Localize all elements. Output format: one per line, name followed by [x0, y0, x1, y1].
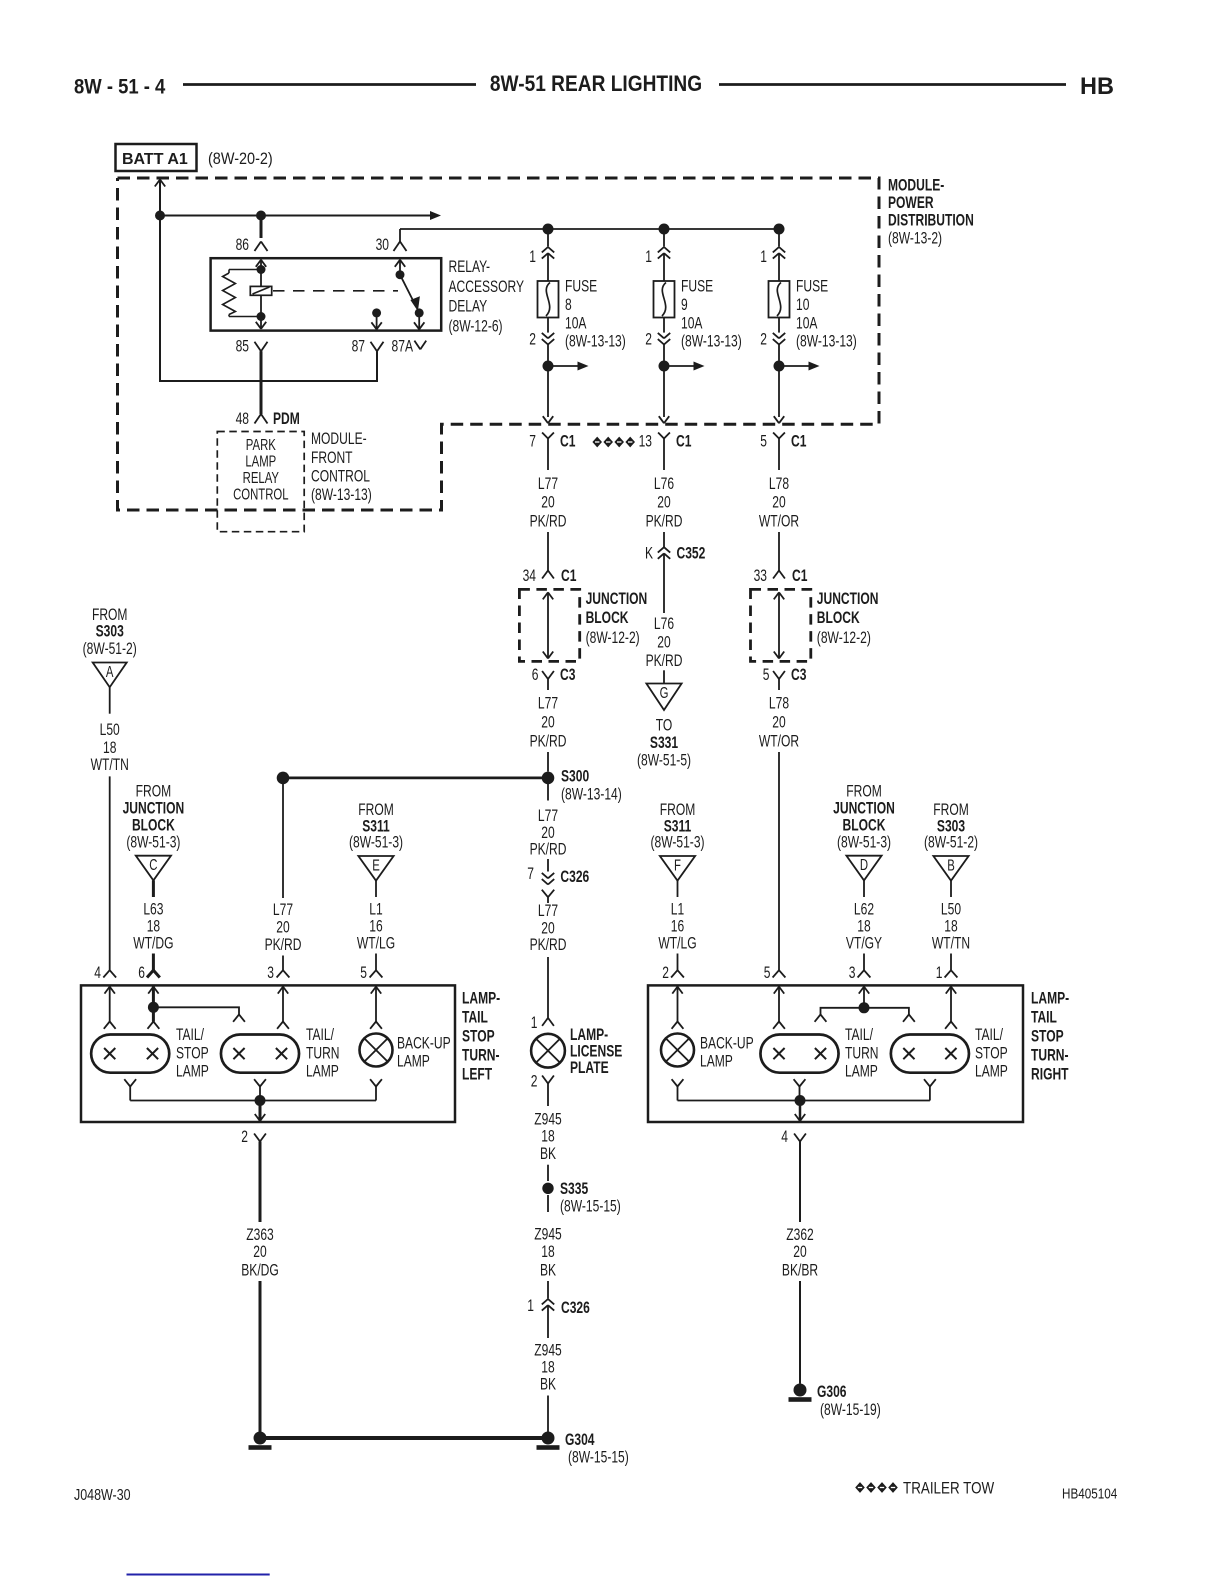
svg-text:5: 5	[763, 666, 770, 684]
header rule left	[183, 83, 476, 86]
svg-text:C352: C352	[677, 545, 706, 563]
wire jumper to tail-stop right	[864, 1008, 915, 1022]
wire to splice S335	[547, 1165, 549, 1181]
svg-text:BATT A1: BATT A1	[122, 151, 188, 168]
wire label L77 20 PK/RD below junction block	[530, 695, 567, 751]
svg-text:(8W-12-6): (8W-12-6)	[449, 318, 503, 336]
right lamp internal feed pin 2	[672, 987, 684, 1029]
label FROM JUNCTION BLOCK (8W-51-3) right	[833, 783, 895, 852]
node bus junction at fuse 8	[543, 224, 554, 235]
svg-text:5: 5	[760, 433, 767, 451]
wire fuse 9 output down	[659, 366, 669, 423]
wire label L78 20 WT/OR	[759, 475, 799, 531]
svg-text:(8W-12-2): (8W-12-2)	[586, 629, 640, 647]
svg-text:C326: C326	[561, 1299, 590, 1317]
svg-text:2: 2	[662, 964, 669, 982]
svg-text:(8W-13-14): (8W-13-14)	[561, 786, 622, 804]
svg-text:BK/BR: BK/BR	[782, 1262, 818, 1280]
svg-text:87: 87	[352, 338, 365, 356]
label RELAY-ACCESSORY DELAY (8W-12-6)	[449, 258, 525, 336]
wire into C326 lower	[547, 1281, 549, 1299]
fuse 8 connector pin 1	[529, 247, 554, 267]
footer trailer tow legend	[855, 1479, 994, 1498]
svg-text:HB: HB	[1080, 73, 1114, 100]
label LAMP-TAIL STOP TURN-LEFT	[462, 990, 500, 1084]
wire to junction block pin 33	[778, 532, 780, 571]
label MODULE-FRONT CONTROL (8W-13-13)	[311, 430, 372, 504]
svg-text:34: 34	[523, 567, 536, 585]
svg-text:(8W-51-5): (8W-51-5)	[637, 752, 691, 770]
svg-text:CONTROL: CONTROL	[311, 468, 370, 486]
svg-text:L1: L1	[671, 901, 684, 919]
svg-text:JUNCTION: JUNCTION	[817, 590, 879, 608]
svg-text:4: 4	[781, 1128, 788, 1146]
svg-text:PK/RD: PK/RD	[646, 652, 683, 670]
node ground collector left	[255, 1095, 266, 1106]
wire label L1 16 WT/LG right	[658, 901, 696, 953]
wire into fuse 10	[778, 253, 780, 281]
footer link line	[127, 1574, 270, 1576]
license lamp pin 1	[531, 1014, 554, 1032]
svg-text:LAMP-: LAMP-	[462, 990, 500, 1008]
svg-text:10A: 10A	[796, 314, 818, 332]
svg-text:L76: L76	[654, 475, 674, 493]
label LAMP-LICENSE PLATE	[570, 1026, 622, 1078]
wire label L50 18 WT/TN	[91, 721, 129, 774]
wire from fuse 10 to connector	[778, 345, 780, 367]
svg-text:RELAY-: RELAY-	[449, 258, 491, 276]
fuse 9 connector pin 2	[645, 318, 670, 350]
wire into fuse 9	[663, 253, 665, 281]
svg-text:FUSE: FUSE	[565, 278, 597, 296]
svg-text:STOP: STOP	[462, 1028, 495, 1046]
wire jumper to tail-turn lamp	[153, 1007, 245, 1022]
node A from S303	[93, 662, 127, 687]
wire from fuse 9 to connector	[663, 345, 665, 367]
svg-text:(8W-51-3): (8W-51-3)	[837, 833, 891, 851]
wire label L62 18 VT/GY	[846, 901, 882, 953]
wire from node A	[109, 687, 111, 714]
footer code HB405104	[1062, 1485, 1118, 1502]
svg-text:1: 1	[645, 248, 652, 266]
trailer tow diamonds marker	[592, 437, 635, 448]
svg-text:BLOCK: BLOCK	[843, 817, 886, 835]
svg-text:20: 20	[793, 1243, 806, 1261]
connector C352 pin K	[645, 545, 705, 563]
junction block right internal arrow	[774, 592, 784, 658]
splice S300	[542, 768, 622, 804]
wire below C352	[663, 553, 665, 613]
svg-text:(8W-15-15): (8W-15-15)	[560, 1198, 621, 1216]
svg-text:PK/RD: PK/RD	[530, 733, 567, 751]
svg-text:ACCESSORY: ACCESSORY	[449, 278, 525, 296]
svg-text:WT/TN: WT/TN	[932, 935, 970, 953]
svg-text:FRONT: FRONT	[311, 449, 353, 467]
svg-text:BACK-UP: BACK-UP	[700, 1035, 754, 1053]
wire from node B	[950, 881, 952, 897]
svg-text:LAMP: LAMP	[306, 1063, 339, 1081]
lamp-tail stop turn-left box	[81, 985, 455, 1122]
svg-text:(8W-51-3): (8W-51-3)	[126, 833, 180, 851]
label FUSE 9 10A (8W-13-13)	[681, 278, 742, 352]
header HB	[1080, 73, 1114, 100]
svg-text:Z945: Z945	[534, 1342, 562, 1360]
node E from S311	[358, 856, 393, 881]
relay coil element	[250, 286, 271, 295]
svg-text:MODULE-: MODULE-	[311, 430, 367, 448]
wire to junction block pin 34	[547, 532, 549, 571]
node bus junction at fuse 10	[774, 224, 785, 235]
wire into connector C326	[547, 859, 549, 872]
wire label Z945 18 BK middle	[534, 1226, 562, 1280]
svg-text:18: 18	[857, 918, 870, 936]
label PARK LAMP RELAY CONTROL	[233, 435, 289, 503]
svg-text:DELAY: DELAY	[449, 298, 488, 316]
svg-text:(8W-51-3): (8W-51-3)	[650, 834, 704, 852]
wire from node E	[375, 881, 377, 897]
svg-text:FUSE: FUSE	[796, 278, 828, 296]
wire label L78 20 WT/OR below junction block	[759, 695, 799, 751]
svg-text:1: 1	[531, 1014, 538, 1032]
svg-text:HB405104: HB405104	[1062, 1485, 1118, 1502]
label (8W-20-2)	[208, 150, 273, 168]
label FROM S311 (8W-51-3) right	[650, 801, 704, 852]
wire from fuse 8 to connector	[547, 345, 549, 367]
svg-text:LAMP: LAMP	[975, 1063, 1008, 1081]
wire to left lamp pin 3	[282, 956, 284, 971]
svg-text:CONTROL: CONTROL	[233, 485, 289, 503]
svg-text:10: 10	[796, 296, 809, 314]
node C from junction block	[136, 855, 171, 880]
svg-text:48: 48	[236, 410, 249, 428]
svg-text:TAIL/: TAIL/	[176, 1026, 205, 1044]
svg-text:A: A	[106, 662, 114, 680]
relay internal dashed link	[273, 290, 398, 292]
fuse 8 connector pin 2	[529, 318, 554, 350]
connector C1 pin 7	[529, 433, 575, 471]
node D from junction block	[846, 855, 881, 880]
wire L63 to left lamp pin 6	[152, 954, 155, 971]
connector C1 pin 5	[760, 433, 806, 471]
wire from S300 down	[547, 784, 549, 801]
wire to connector C352	[663, 532, 665, 547]
svg-text:85: 85	[236, 338, 249, 356]
svg-text:STOP: STOP	[975, 1045, 1008, 1063]
ground G304	[537, 1431, 629, 1467]
node take-off at fuse 8 output	[543, 361, 589, 372]
svg-text:C326: C326	[560, 868, 589, 886]
park lamp relay control dashed box	[217, 432, 304, 532]
svg-text:Z363: Z363	[246, 1226, 274, 1244]
svg-text:20: 20	[657, 634, 670, 652]
svg-text:BLOCK: BLOCK	[817, 609, 860, 627]
wire fuse 10 output down	[774, 366, 784, 423]
svg-text:JUNCTION: JUNCTION	[586, 590, 648, 608]
label BACK-UP LAMP right	[700, 1035, 754, 1071]
node take-off at fuse 9 output	[659, 361, 705, 372]
left lamp ground returns	[124, 1079, 382, 1100]
left lamp pin 6	[138, 964, 160, 982]
left lamp pin 5	[360, 964, 382, 982]
svg-text:BLOCK: BLOCK	[132, 817, 175, 835]
wire label L76 20 PK/RD	[646, 475, 683, 531]
node bus junction at fuse 9	[659, 224, 670, 235]
wire L1 to left lamp pin 5	[375, 954, 377, 971]
svg-text:8: 8	[565, 296, 572, 314]
footer drawing number J048W-30	[74, 1487, 131, 1505]
svg-text:STOP: STOP	[1031, 1028, 1064, 1046]
svg-text:2: 2	[760, 331, 767, 349]
svg-text:C1: C1	[676, 433, 691, 451]
wire bus to fuse 8	[547, 229, 549, 247]
svg-text:L62: L62	[854, 901, 874, 919]
svg-text:S331: S331	[650, 734, 678, 752]
svg-text:POWER: POWER	[888, 194, 934, 212]
svg-text:BK/DG: BK/DG	[241, 1262, 279, 1280]
left lamp internal feed pin 5	[370, 987, 382, 1029]
svg-text:L50: L50	[941, 901, 961, 919]
svg-text:16: 16	[369, 918, 382, 936]
svg-text:PK/RD: PK/RD	[265, 936, 302, 954]
fuse F9 10A	[654, 281, 675, 318]
label TO S331 (8W-51-5)	[637, 717, 691, 770]
wire label Z945 18 BK lower	[534, 1342, 562, 1394]
svg-text:TURN-: TURN-	[462, 1047, 500, 1065]
svg-text:E: E	[372, 856, 380, 874]
svg-text:20: 20	[276, 919, 289, 937]
svg-text:BK: BK	[540, 1376, 556, 1394]
node jumper dot right box	[859, 1002, 870, 1013]
svg-text:L77: L77	[538, 695, 558, 713]
svg-text:86: 86	[236, 236, 249, 254]
tail-turn lamp left	[221, 1035, 299, 1073]
svg-text:(8W-51-3): (8W-51-3)	[349, 834, 403, 852]
tail-stop lamp right	[891, 1035, 969, 1073]
svg-text:TRAILER TOW: TRAILER TOW	[903, 1479, 995, 1498]
svg-text:WT/OR: WT/OR	[759, 513, 799, 531]
wire from relay pin 85 to PDM pin 48	[260, 351, 263, 414]
left lamp internal feed pin 3	[277, 987, 289, 1029]
svg-text:20: 20	[541, 920, 554, 938]
wire below C326 lower	[547, 1305, 549, 1338]
svg-text:18: 18	[541, 1128, 554, 1146]
label FROM JUNCTION BLOCK (8W-51-3) left	[123, 783, 185, 852]
svg-text:DISTRIBUTION: DISTRIBUTION	[888, 212, 974, 230]
svg-text:8W - 51 - 4: 8W - 51 - 4	[74, 75, 165, 98]
svg-text:(8W-13-13): (8W-13-13)	[681, 333, 742, 351]
svg-text:L77: L77	[273, 901, 293, 919]
connector C1 pin 13	[639, 433, 692, 471]
wire Z362 to ground	[799, 1281, 801, 1384]
svg-text:PK/RD: PK/RD	[530, 513, 567, 531]
wire fuse 8 output down	[543, 366, 553, 423]
svg-text:JUNCTION: JUNCTION	[833, 800, 895, 818]
svg-text:WT/OR: WT/OR	[759, 733, 799, 751]
svg-text:BK: BK	[540, 1145, 556, 1163]
tail-stop lamp left	[91, 1035, 169, 1073]
svg-text:L77: L77	[538, 807, 558, 825]
relay pin 87A	[392, 338, 427, 356]
svg-text:18: 18	[541, 1243, 554, 1261]
label FUSE 10 10A (8W-13-13)	[796, 278, 857, 352]
label JUNCTION BLOCK (8W-12-2) left	[586, 590, 648, 647]
right lamp pin 1	[936, 964, 958, 982]
label JUNCTION BLOCK (8W-12-2) right	[817, 590, 879, 647]
svg-text:WT/LG: WT/LG	[357, 935, 395, 953]
svg-text:L1: L1	[369, 901, 382, 919]
svg-text:L78: L78	[769, 695, 789, 713]
junction block right dashed box	[751, 589, 811, 661]
wire label Z945 18 BK	[534, 1111, 562, 1164]
battery feed BATT A1 box	[116, 144, 197, 171]
wire label L77 20 PK/RD at license lamp	[530, 902, 567, 955]
svg-text:20: 20	[772, 494, 785, 512]
wire Z363 upper	[259, 1142, 262, 1223]
svg-text:C1: C1	[792, 567, 807, 585]
svg-text:18: 18	[147, 918, 160, 936]
label BACK-UP LAMP left	[397, 1035, 451, 1071]
fuse 10 connector pin 2	[760, 318, 785, 350]
svg-text:PDM: PDM	[273, 410, 300, 428]
fuse 10 connector pin 1	[760, 247, 785, 267]
svg-text:BLOCK: BLOCK	[586, 609, 629, 627]
svg-text:LAMP: LAMP	[176, 1063, 209, 1081]
left lamp pin 4	[94, 964, 116, 982]
node junction dot at relay coil feed	[256, 211, 266, 221]
wire label Z363 20 BK/DG	[241, 1226, 279, 1280]
svg-text:18: 18	[103, 739, 116, 757]
relay switch	[395, 260, 420, 311]
tail-turn lamp right	[760, 1035, 838, 1073]
right lamp pin 4 ground	[781, 1128, 806, 1146]
label TAIL/STOP LAMP left	[176, 1026, 209, 1081]
svg-text:C1: C1	[561, 567, 576, 585]
label FROM S303 (8W-51-2) top left	[83, 606, 137, 659]
node B from S303	[933, 856, 968, 881]
svg-text:TAIL: TAIL	[1031, 1009, 1057, 1027]
wire below S335	[547, 1195, 549, 1212]
svg-text:33: 33	[754, 567, 767, 585]
node junction dot left	[155, 211, 165, 221]
svg-text:FUSE: FUSE	[681, 278, 713, 296]
svg-text:C1: C1	[560, 433, 575, 451]
right lamp internal feed pin 5	[773, 987, 785, 1029]
svg-text:20: 20	[541, 714, 554, 732]
svg-text:C3: C3	[560, 666, 575, 684]
back-up lamp right	[661, 1034, 694, 1067]
wire riser from relay pin 30 to fuse bus	[400, 229, 779, 242]
right lamp pin 2	[662, 964, 684, 982]
svg-text:FROM: FROM	[846, 783, 882, 801]
svg-text:5: 5	[360, 964, 367, 982]
wire from S300 branch down to lamp pin 3	[282, 778, 284, 898]
left lamp internal feed pin 4	[104, 987, 116, 1029]
license lamp pin 2	[531, 1073, 554, 1091]
lamp-tail stop turn-right box	[648, 985, 1023, 1122]
svg-text:16: 16	[671, 918, 684, 936]
svg-text:F: F	[674, 856, 681, 874]
back-up lamp left	[360, 1034, 393, 1067]
left lamp pin 2 ground	[241, 1128, 266, 1146]
svg-text:Z945: Z945	[534, 1111, 562, 1129]
svg-text:1: 1	[936, 964, 943, 982]
wire label L77 20 PK/RD license feed	[530, 807, 567, 859]
svg-text:20: 20	[772, 714, 785, 732]
wire into fuse 8	[547, 253, 549, 281]
junction block left dashed box	[519, 589, 579, 661]
svg-text:JUNCTION: JUNCTION	[123, 800, 185, 818]
svg-text:LAMP: LAMP	[700, 1053, 733, 1071]
svg-text:2: 2	[529, 331, 536, 349]
right lamp internal feed pin 1	[945, 987, 957, 1029]
svg-text:RIGHT: RIGHT	[1031, 1066, 1069, 1084]
svg-text:30: 30	[376, 236, 389, 254]
svg-text:FROM: FROM	[136, 783, 172, 801]
svg-text:Z362: Z362	[786, 1226, 814, 1244]
svg-text:K: K	[645, 545, 653, 563]
relay coil branch	[256, 260, 266, 329]
svg-text:L76: L76	[654, 615, 674, 633]
svg-text:1: 1	[529, 248, 536, 266]
svg-text:STOP: STOP	[176, 1045, 209, 1063]
svg-text:(8W-13-2): (8W-13-2)	[888, 229, 942, 247]
svg-text:LAMP: LAMP	[397, 1053, 430, 1071]
svg-text:D: D	[860, 855, 868, 873]
connector C1 pin 34	[523, 567, 577, 585]
wire label L1 16 WT/LG	[357, 901, 395, 953]
wire from BATT A1 down with arrow	[155, 180, 165, 216]
right lamp internal feed pin 3	[859, 987, 869, 1008]
wire from node F	[677, 881, 679, 897]
svg-text:(8W-13-13): (8W-13-13)	[796, 333, 857, 351]
fuse 9 connector pin 1	[645, 247, 670, 267]
wire ground out of right box	[795, 1101, 805, 1122]
svg-text:LAMP: LAMP	[845, 1063, 878, 1081]
wire from 87 to battery feed branch	[160, 216, 377, 382]
wire S300 branch to left lamp	[283, 777, 548, 780]
wire bus to relay with arrow	[160, 211, 441, 220]
svg-text:Z945: Z945	[534, 1226, 562, 1244]
wire license lamp to Z945	[547, 1084, 549, 1107]
fuse F10 10A	[769, 281, 790, 318]
wire Z363 to ground	[259, 1281, 262, 1432]
node G to S331	[646, 683, 681, 710]
label TAIL/STOP LAMP right	[975, 1026, 1008, 1081]
svg-text:1: 1	[527, 1297, 534, 1315]
label TAIL/TURN LAMP left	[306, 1026, 340, 1081]
right lamp pin 3	[849, 964, 871, 982]
wire Z362 upper	[799, 1142, 801, 1223]
svg-text:(8W-13-13): (8W-13-13)	[565, 333, 626, 351]
module-power distribution dashed outline	[118, 178, 880, 510]
node jumper dot left box	[148, 1002, 159, 1013]
svg-text:MODULE-: MODULE-	[888, 177, 944, 195]
svg-text:18: 18	[944, 918, 957, 936]
svg-text:4: 4	[94, 964, 101, 982]
svg-text:C: C	[149, 855, 157, 873]
wire bus to fuse 10	[778, 229, 780, 247]
right lamp ground returns	[672, 1079, 936, 1100]
connector C3 pin 6	[532, 666, 576, 690]
svg-text:B: B	[947, 856, 955, 874]
relay pin 30	[376, 236, 407, 254]
svg-text:BK: BK	[540, 1262, 556, 1280]
header title 8W-51 REAR LIGHTING	[490, 72, 702, 97]
relay contact 87A	[414, 308, 424, 329]
header page number 8W - 51 - 4	[74, 75, 165, 98]
svg-text:9: 9	[681, 296, 688, 314]
svg-text:87A: 87A	[392, 338, 414, 356]
